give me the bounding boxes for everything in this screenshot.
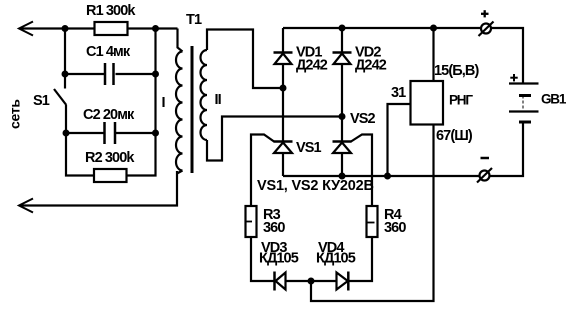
svg-text:КД105: КД105 — [259, 251, 299, 267]
svg-text:VS1, VS2 КУ202В: VS1, VS2 КУ202В — [257, 178, 374, 194]
svg-text:67(Ш): 67(Ш) — [436, 128, 473, 144]
plus sign of + terminal — [481, 13, 489, 15]
svg-text:15(Б,В): 15(Б,В) — [434, 63, 479, 79]
wire: R4 to VD4 — [348, 237, 372, 281]
terminal + (output clamp) — [481, 24, 491, 34]
diode VD4 — [337, 273, 348, 290]
svg-text:S1: S1 — [33, 93, 50, 109]
node: VD1/VS1 junction — [280, 85, 287, 92]
terminal - (output clamp) — [480, 171, 490, 181]
node: VD2 anode on positive rail — [339, 25, 346, 32]
resistor R3 — [246, 206, 257, 237]
svg-text:КД105: КД105 — [316, 251, 356, 267]
arrow: mains terminal bottom — [19, 199, 33, 213]
svg-text:R2 300k: R2 300k — [85, 150, 135, 166]
diode VD1 — [282, 28, 284, 88]
wire: VS1 gate — [251, 135, 274, 207]
node: R1 right junction — [152, 25, 159, 32]
capacitor C2 — [103, 122, 106, 144]
plus sign of battery — [510, 77, 517, 79]
wire: C2 row — [66, 132, 104, 134]
wire: secondary top lead to VD1/VS1 node — [207, 30, 283, 89]
svg-text:360: 360 — [263, 220, 285, 236]
svg-text:Д242: Д242 — [296, 58, 328, 74]
svg-text:VS1: VS1 — [296, 140, 322, 156]
diode VD3 — [273, 272, 276, 291]
wire: regulator top pin 15 — [432, 28, 434, 81]
wire: negative bottom rail — [283, 122, 523, 176]
svg-text:сеть: сеть — [7, 99, 23, 129]
wire: right vertical x=155.5 — [154, 29, 156, 134]
resistor R2 — [94, 169, 127, 182]
svg-text:C1 4мк: C1 4мк — [86, 44, 131, 60]
capacitor C1 — [104, 63, 107, 85]
diode VD2 — [341, 28, 343, 117]
svg-text:360: 360 — [384, 220, 406, 236]
svg-text:T1: T1 — [186, 12, 202, 28]
svg-text:II: II — [215, 92, 222, 108]
regulator box РНГ — [411, 81, 444, 125]
wire: top-left mains rail — [20, 27, 178, 29]
svg-text:R1 300k: R1 300k — [86, 3, 136, 19]
minus sign of - terminal — [481, 157, 490, 160]
switch S1 — [64, 74, 66, 89]
node: regulator pin 15 on positive rail — [430, 25, 437, 32]
arrow: mains terminal top — [19, 22, 33, 36]
transformer T1 secondary winding II — [201, 50, 207, 140]
transformer T1 core — [191, 46, 194, 173]
thyristor VS1 — [282, 88, 284, 176]
node: pin 31 on negative rail — [384, 173, 391, 180]
svg-text:C2 20мк: C2 20мк — [83, 107, 135, 123]
svg-text:GB1: GB1 — [541, 92, 567, 107]
node: C1 right junction — [152, 71, 159, 78]
battery GB1 — [509, 82, 539, 84]
node: VS2 anode on negative rail — [339, 173, 346, 180]
node: R1 left junction — [62, 25, 69, 32]
wire: R3 to VD3 — [251, 237, 274, 281]
node: C2 right junction — [152, 130, 159, 137]
thyristor VS2 — [341, 117, 343, 177]
node: C1 left junction — [62, 71, 69, 78]
wire: secondary bottom lead to VD2/VS2 node — [207, 117, 342, 161]
resistor R4 — [367, 206, 378, 237]
svg-text:VS2: VS2 — [350, 111, 376, 127]
wire: regulator bottom pin 67 to VD3/VD4 node — [311, 125, 434, 302]
wire: VS2 gate — [351, 135, 372, 207]
wire: regulator left pin 31 to negative rail — [388, 104, 411, 176]
svg-text:Д242: Д242 — [355, 58, 387, 74]
wire: C1 row — [65, 73, 104, 75]
wire: bottom-left mains wire — [20, 171, 177, 206]
wire: VD3 to VD4 — [286, 280, 337, 282]
svg-text:31: 31 — [391, 85, 406, 101]
node: VD3/VD4 junction — [308, 278, 315, 285]
node: VD2/VS2 junction — [339, 113, 346, 120]
resistor R1 — [95, 22, 128, 35]
node: C2 left junction — [63, 130, 70, 137]
svg-text:РНГ: РНГ — [449, 93, 473, 108]
wire: R2 loop — [66, 133, 94, 176]
wire: top-right positive rail — [283, 28, 523, 84]
transformer T1 primary winding I — [178, 29, 183, 52]
wire: left vertical from R1 rail to C1 — [64, 29, 66, 75]
